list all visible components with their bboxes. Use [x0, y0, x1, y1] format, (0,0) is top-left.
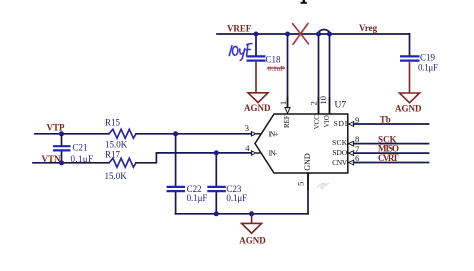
svg-text:Vreg: Vreg: [359, 23, 378, 33]
svg-text:REF: REF: [283, 115, 291, 128]
svg-text:0.1μF: 0.1μF: [226, 193, 247, 203]
svg-text:VTN: VTN: [42, 154, 62, 164]
svg-text:SDO: SDO: [332, 148, 347, 157]
svg-text:R17: R17: [105, 149, 121, 159]
svg-text:SCK: SCK: [332, 138, 348, 147]
svg-text:GND: GND: [303, 153, 312, 171]
svg-text:0.1μF: 0.1μF: [71, 154, 94, 164]
svg-text:2: 2: [308, 101, 318, 105]
svg-text:0.1μF: 0.1μF: [418, 62, 438, 72]
svg-text:MISO: MISO: [378, 143, 399, 153]
svg-text:VTP: VTP: [47, 123, 66, 133]
svg-text:4: 4: [245, 143, 250, 153]
svg-text:0.1μF: 0.1μF: [187, 193, 208, 203]
svg-text:C19: C19: [420, 52, 436, 62]
svg-text:9: 9: [355, 115, 359, 125]
svg-text:AGND: AGND: [395, 103, 422, 113]
svg-text:CVRT: CVRT: [378, 153, 399, 163]
svg-text:8: 8: [355, 134, 359, 144]
svg-text:SDI: SDI: [334, 119, 348, 128]
svg-text:5: 5: [295, 182, 305, 186]
svg-text:VIO: VIO: [323, 115, 331, 127]
svg-text:IN-: IN-: [269, 149, 278, 158]
svg-text:Tb: Tb: [380, 114, 391, 124]
svg-text:15.0K: 15.0K: [105, 140, 128, 150]
svg-text:VCC: VCC: [313, 115, 321, 130]
svg-text:1: 1: [278, 101, 288, 105]
svg-text:IN+: IN+: [269, 129, 279, 138]
svg-text:CNV: CNV: [332, 158, 348, 167]
svg-text:3: 3: [245, 123, 249, 133]
svg-text:15.0K: 15.0K: [105, 171, 128, 181]
svg-text:AGND: AGND: [239, 235, 266, 245]
svg-text:R15: R15: [105, 118, 121, 128]
svg-text:C18: C18: [266, 55, 282, 65]
svg-text:U7: U7: [335, 100, 347, 110]
svg-text:AGND: AGND: [244, 103, 271, 113]
svg-text:6: 6: [355, 153, 359, 163]
svg-text:10: 10: [318, 96, 328, 105]
svg-text:VREF: VREF: [227, 23, 252, 33]
svg-text:C21: C21: [73, 143, 88, 153]
